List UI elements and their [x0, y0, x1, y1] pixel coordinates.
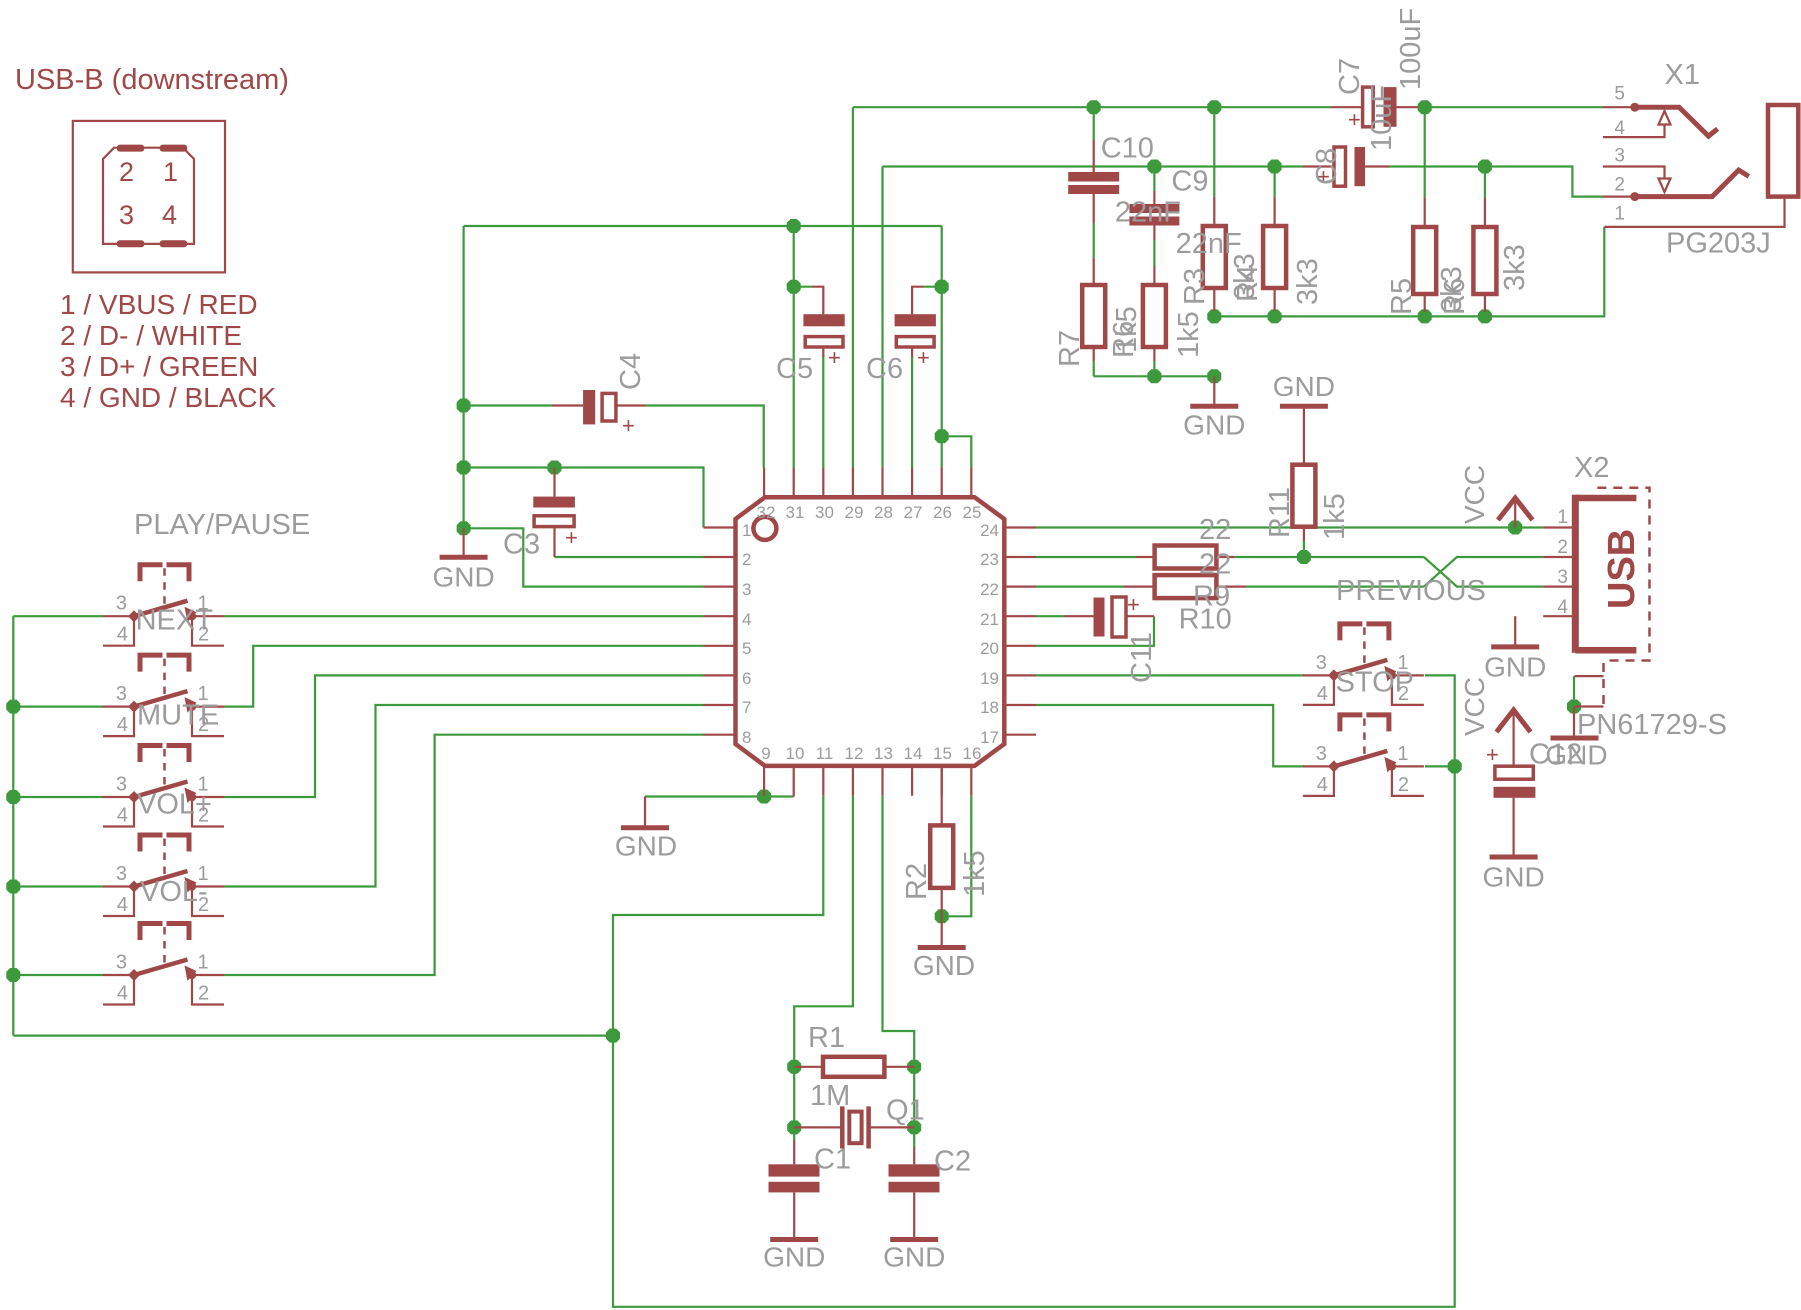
- wire C4 right to IC pin32: [646, 406, 764, 468]
- wire pin12 column to crystal left: [794, 796, 853, 1140]
- node bus y528: [457, 521, 471, 535]
- capacitor C8: [1303, 147, 1389, 189]
- wire C10 to R7 net: [1093, 223, 1095, 258]
- svg-text:25: 25: [963, 503, 982, 522]
- svg-text:2: 2: [198, 983, 209, 1005]
- svg-text:3: 3: [742, 580, 751, 599]
- svg-text:GND: GND: [763, 1242, 825, 1273]
- svg-text:22nF: 22nF: [1115, 197, 1181, 229]
- wire lower switch pin1: [1425, 765, 1455, 767]
- svg-text:4: 4: [117, 624, 128, 646]
- capacitor C5: [803, 287, 844, 370]
- svg-text:C8: C8: [1311, 148, 1343, 185]
- svg-text:3: 3: [1316, 743, 1327, 765]
- capacitor C3 10uF: [533, 468, 578, 558]
- node C4 left: [457, 399, 471, 413]
- svg-text:GND: GND: [615, 831, 677, 862]
- wire VOL- pin3: [13, 885, 103, 887]
- svg-text:29: 29: [845, 503, 864, 522]
- svg-text:1k5: 1k5: [1319, 493, 1351, 540]
- wire C4 left lead net: [464, 404, 552, 406]
- svg-text:VCC: VCC: [1459, 465, 1490, 524]
- svg-text:USB: USB: [1601, 529, 1643, 609]
- svg-text:1: 1: [1614, 204, 1625, 225]
- svg-text:4: 4: [1557, 597, 1568, 618]
- resistor R4 3k3: [1263, 197, 1286, 311]
- svg-text:3: 3: [116, 952, 127, 974]
- svg-text:4: 4: [117, 714, 128, 736]
- svg-text:19: 19: [980, 669, 999, 688]
- switch S4 (VOL-): [103, 835, 224, 916]
- svg-text:2: 2: [1398, 774, 1409, 796]
- svg-text:GND: GND: [1183, 410, 1245, 441]
- node C6 tap: [935, 280, 949, 294]
- svg-text:VOL-: VOL-: [140, 876, 208, 908]
- svg-text:7: 7: [742, 698, 751, 717]
- wire VOL+ pin3: [13, 796, 103, 798]
- svg-text:3: 3: [116, 774, 127, 796]
- svg-text:3: 3: [1557, 567, 1568, 588]
- capacitor C12: [1486, 711, 1535, 855]
- svg-text:3: 3: [116, 863, 127, 885]
- wire R6 bottom stub: [1153, 361, 1155, 376]
- svg-text:C1: C1: [814, 1144, 851, 1176]
- svg-text:3: 3: [1316, 652, 1327, 674]
- svg-text:X2: X2: [1574, 452, 1609, 484]
- IC pin1 marker circle: [753, 517, 776, 540]
- wire C3 bottom to IC pin2: [555, 556, 704, 558]
- wire R6 bottom stub: [1484, 312, 1486, 316]
- wire right return loop: [613, 766, 1455, 1306]
- node bus VOL+: [6, 790, 20, 804]
- capacitor C7 100uF: [1331, 87, 1418, 132]
- svg-text:4 / GND / BLACK: 4 / GND / BLACK: [60, 382, 277, 413]
- wire R6 column upper: [1484, 167, 1486, 199]
- wire C6 top tap: [924, 286, 942, 288]
- wire NEXT pin1 to IC pin4: [224, 615, 704, 617]
- svg-text:13: 13: [874, 744, 893, 763]
- wire fifth switch pin3: [13, 974, 103, 976]
- ground symbol G2 pins 9 10: [615, 797, 677, 862]
- svg-text:GND: GND: [1482, 862, 1544, 893]
- svg-text:+: +: [828, 345, 841, 370]
- wire pin28 column: [881, 167, 883, 468]
- svg-text:20: 20: [980, 639, 999, 658]
- wire C5 bottom to pin30: [822, 356, 824, 468]
- IC top pin stubs: [764, 468, 971, 498]
- IC left pin stubs: [704, 528, 734, 735]
- capacitor C1: [769, 1140, 820, 1237]
- svg-text:3k3: 3k3: [1436, 266, 1468, 313]
- svg-text:4: 4: [117, 983, 128, 1005]
- svg-text:2: 2: [119, 157, 134, 187]
- capacitor C4: [552, 390, 646, 438]
- wire IC pin21 row to C11: [1036, 615, 1065, 617]
- wire IC pins 9 10 ground row: [645, 795, 794, 797]
- resistor R10 22: [1124, 575, 1247, 598]
- svg-text:3k3: 3k3: [1499, 244, 1531, 291]
- node R3 bottom: [1207, 309, 1221, 323]
- node top rail / pin31: [787, 219, 801, 233]
- wire R7 R6 bottoms y=376.3: [1094, 375, 1215, 377]
- X2 pin stubs: [1543, 528, 1572, 617]
- svg-text:2: 2: [1557, 537, 1568, 558]
- node R5 bottom: [1418, 309, 1432, 323]
- node GND tap shunt: [1207, 369, 1221, 383]
- resistor R7 1k5: [1082, 258, 1105, 361]
- svg-text:28: 28: [874, 503, 893, 522]
- IC top pin numbers: [757, 503, 982, 522]
- svg-text:GND: GND: [883, 1242, 945, 1273]
- resistor R6 3k3: [1473, 198, 1496, 312]
- wire crossing up to X2 pin2: [1424, 557, 1543, 587]
- switch S5: [103, 924, 224, 1005]
- ground symbol G7 above R11: [1273, 371, 1335, 406]
- node bus VOL-: [6, 880, 20, 894]
- node bus SW5: [6, 968, 20, 982]
- svg-text:32: 32: [757, 503, 776, 522]
- resistor R6a 1k5: [1143, 266, 1166, 361]
- svg-text:3: 3: [119, 200, 134, 230]
- resistor R2 1k5: [930, 766, 953, 946]
- node pin25 branch: [935, 429, 949, 443]
- node R1 left: [787, 1060, 801, 1074]
- IC bottom pin numbers: [761, 744, 981, 763]
- resistor R11 1k5: [1292, 408, 1315, 541]
- wire R5 column upper: [1424, 107, 1426, 198]
- ground symbol G9 X2 shield: [1545, 707, 1607, 771]
- USB-B pad top-right: [160, 145, 188, 152]
- node C9 top: [1147, 160, 1161, 174]
- svg-text:3 / D+ / GREEN: 3 / D+ / GREEN: [60, 351, 258, 382]
- IC U1 body: [736, 497, 1005, 766]
- IC right pin numbers: [980, 521, 999, 747]
- wire top net y=107 right segment to X1 pin5: [1418, 106, 1603, 108]
- node C7 right: [1418, 100, 1432, 114]
- svg-text:C10: C10: [1101, 133, 1154, 165]
- X2 dashed shield outline: [1597, 488, 1649, 661]
- svg-text:+: +: [1348, 107, 1361, 132]
- wire MUTE pin3: [13, 705, 103, 707]
- svg-text:23: 23: [980, 550, 999, 569]
- switch S2 (MUTE): [103, 655, 224, 736]
- svg-text:2: 2: [1614, 175, 1625, 196]
- wire pin29 column to top rail: [852, 107, 854, 467]
- X1 pin 2 lead and lever: [1603, 170, 1749, 201]
- node R6 top: [1478, 160, 1492, 174]
- svg-text:PREVIOUS: PREVIOUS: [1336, 575, 1486, 607]
- ground symbol G10 C12: [1482, 857, 1544, 893]
- wire R4 column upper: [1273, 167, 1275, 198]
- capacitor C11: [1065, 592, 1155, 637]
- svg-text:C11: C11: [1126, 632, 1158, 683]
- wire VCC top rail y=226: [464, 225, 942, 227]
- svg-text:3: 3: [116, 683, 127, 705]
- svg-text:4: 4: [1614, 118, 1625, 139]
- svg-text:R3: R3: [1179, 268, 1211, 305]
- svg-text:C7: C7: [1334, 58, 1366, 95]
- node R4 top: [1268, 160, 1282, 174]
- wire IC pin22 row right of R10 to crossing: [1246, 585, 1424, 587]
- ground symbol G8 X2 pin4: [1484, 616, 1546, 682]
- X2 shield pin rungs: [1575, 676, 1604, 706]
- node C3 top: [548, 461, 562, 475]
- svg-text:3: 3: [116, 593, 127, 615]
- wire pin26 column: [941, 226, 943, 468]
- svg-text:4: 4: [162, 200, 177, 230]
- svg-text:PN61729-S: PN61729-S: [1577, 709, 1727, 741]
- svg-text:10uF: 10uF: [1366, 85, 1398, 151]
- capacitor C9 22nF: [1129, 191, 1179, 240]
- wire top net D+ y=107 left segment: [853, 106, 1331, 108]
- VCC arrow X2 pin1: [1498, 498, 1533, 528]
- svg-text:11: 11: [816, 744, 834, 763]
- svg-text:26: 26: [933, 503, 952, 522]
- wire C5 top tap: [794, 286, 812, 288]
- svg-text:4: 4: [742, 610, 751, 629]
- wire IC pin23 row right of R9 to crossing: [1234, 556, 1424, 558]
- svg-text:4: 4: [117, 894, 128, 916]
- wire R5 bottom stub: [1424, 312, 1426, 316]
- svg-text:1: 1: [163, 157, 178, 187]
- switch S7: [1303, 715, 1424, 796]
- svg-text:C9: C9: [1171, 166, 1208, 198]
- wire C9 column upper: [1153, 167, 1155, 192]
- svg-text:GND: GND: [1273, 371, 1335, 402]
- svg-text:R2: R2: [901, 863, 933, 900]
- svg-text:3k3: 3k3: [1229, 253, 1261, 300]
- svg-text:GND: GND: [1545, 740, 1607, 771]
- svg-text:1 / VBUS / RED: 1 / VBUS / RED: [60, 289, 258, 320]
- svg-text:4: 4: [1317, 683, 1328, 705]
- USB-B connector body outline: [103, 148, 194, 244]
- svg-text:31: 31: [786, 503, 805, 522]
- node bus MUTE: [6, 700, 20, 714]
- ground symbol G6 shunt: [1183, 376, 1245, 440]
- wire STOP pin1 riser: [1425, 675, 1455, 766]
- svg-text:30: 30: [815, 503, 834, 522]
- svg-text:VOL+: VOL+: [137, 789, 212, 821]
- wire branch to IC pin3: [464, 528, 704, 586]
- svg-text:USB-B (downstream): USB-B (downstream): [15, 64, 289, 96]
- USB-B pad top-left: [117, 145, 145, 152]
- wire R4 bottom stub: [1273, 311, 1275, 316]
- svg-text:24: 24: [980, 521, 999, 540]
- svg-text:C2: C2: [934, 1146, 971, 1178]
- svg-text:1: 1: [1397, 743, 1408, 765]
- svg-text:6: 6: [742, 669, 751, 688]
- node Q1 right: [907, 1120, 921, 1134]
- svg-text:1: 1: [198, 952, 209, 974]
- wire IC pin24 row to X2 pin1: [1036, 526, 1543, 528]
- node R2 bottom: [935, 909, 949, 923]
- svg-text:+: +: [622, 413, 635, 438]
- ground symbol G3 R2: [913, 948, 975, 982]
- svg-text:100uF: 100uF: [1395, 8, 1427, 90]
- svg-text:GND: GND: [913, 950, 975, 981]
- wire crossing down to X2 pin3: [1424, 557, 1543, 587]
- wire left decoupling bus x=464: [463, 226, 465, 528]
- svg-text:STOP: STOP: [1336, 667, 1414, 699]
- node R1 right: [907, 1060, 921, 1074]
- USB-B pad bottom-left: [117, 240, 145, 247]
- svg-text:17: 17: [980, 728, 999, 747]
- resistor R5 3k3: [1413, 198, 1436, 312]
- wire NEXT pin3: [13, 615, 103, 617]
- wire pin16 to R2 bottom: [942, 796, 972, 917]
- node R11 bottom: [1297, 550, 1311, 564]
- svg-text:X1: X1: [1665, 59, 1700, 91]
- wire second net y=166.5 left segment: [883, 165, 1304, 167]
- svg-text:22: 22: [980, 580, 999, 599]
- svg-text:2 / D- / WHITE: 2 / D- / WHITE: [60, 320, 242, 351]
- node C10 top: [1087, 100, 1101, 114]
- svg-text:R10: R10: [1179, 604, 1232, 636]
- node Q1 left: [787, 1120, 801, 1134]
- svg-text:10: 10: [786, 744, 805, 763]
- svg-text:R7: R7: [1054, 330, 1086, 367]
- ground symbol G4 C1: [763, 1240, 825, 1273]
- svg-text:21: 21: [980, 610, 999, 629]
- node R4 bottom: [1268, 309, 1282, 323]
- ground symbol G5 C2: [883, 1240, 945, 1273]
- X1 pin 3 lead with down arrow: [1603, 167, 1671, 193]
- svg-text:1: 1: [1557, 507, 1568, 528]
- node bus y467: [457, 461, 471, 475]
- wire IC pin22 row left of R10: [1036, 585, 1124, 587]
- node switch chain: [1448, 759, 1462, 773]
- svg-text:C5: C5: [776, 353, 813, 385]
- svg-text:+: +: [917, 345, 930, 370]
- wire X2 shield stub: [1573, 676, 1575, 706]
- resistor R1 1M: [794, 1057, 914, 1077]
- svg-text:GND: GND: [1484, 652, 1546, 683]
- wire VOL+ pin1 to IC pin6: [224, 675, 704, 797]
- node bottom rail: [606, 1029, 620, 1043]
- svg-text:R1: R1: [808, 1022, 845, 1054]
- svg-text:18: 18: [980, 698, 999, 717]
- svg-text:15: 15: [933, 744, 952, 763]
- svg-text:R5: R5: [1386, 278, 1418, 315]
- capacitor C2: [889, 1147, 940, 1237]
- wire bottom left rail: [13, 1034, 613, 1036]
- wire left switch bus: [12, 616, 14, 1035]
- USB-B connector drawing frame: [73, 121, 225, 273]
- node VCC X2 pin1: [1508, 521, 1522, 535]
- svg-text:4: 4: [117, 805, 128, 827]
- wire IC pin19 row to STOP: [1036, 674, 1304, 676]
- svg-text:8: 8: [742, 728, 751, 747]
- node C5 tap: [787, 280, 801, 294]
- crystal Q1: [794, 1106, 914, 1148]
- USB-B pad bottom-right: [160, 240, 188, 247]
- X1 pin 4 lead with up arrow: [1603, 111, 1671, 137]
- svg-text:C3: C3: [503, 529, 540, 561]
- switch S1 PLAY/PAUSE (NEXT): [103, 565, 224, 646]
- svg-text:1k5: 1k5: [1111, 306, 1143, 353]
- svg-text:9: 9: [761, 744, 770, 763]
- node R6a bottom: [1147, 369, 1161, 383]
- wire branch to pin25: [942, 436, 972, 467]
- IC bottom pin stubs: [764, 766, 971, 797]
- svg-text:3: 3: [1614, 146, 1625, 167]
- svg-text:PG203J: PG203J: [1666, 228, 1771, 260]
- svg-text:22: 22: [1199, 514, 1231, 546]
- wire pin31 column: [793, 226, 795, 468]
- svg-text:+: +: [565, 525, 578, 550]
- svg-text:Q1: Q1: [886, 1095, 925, 1127]
- svg-text:PLAY/PAUSE: PLAY/PAUSE: [134, 509, 310, 541]
- X1 pin 5 lead and lever: [1603, 103, 1718, 136]
- wire R3 bottom stub: [1213, 311, 1215, 316]
- switch S6 (STOP): [1303, 624, 1424, 705]
- resistor R3 3k3: [1203, 197, 1226, 311]
- wire C11 return to IC pin20: [1036, 616, 1154, 646]
- svg-text:C4: C4: [615, 353, 647, 390]
- resistor R9 22: [1136, 546, 1234, 569]
- svg-text:GND: GND: [432, 562, 494, 593]
- node X2 shield gnd: [1567, 700, 1581, 714]
- wire second net y=166.5 right segment to X1 pin2: [1389, 167, 1603, 197]
- capacitor C6: [895, 287, 936, 370]
- svg-text:1: 1: [742, 521, 751, 540]
- IC right pin stubs: [1006, 528, 1036, 735]
- svg-text:27: 27: [904, 503, 923, 522]
- wire VOL- pin1 to IC pin7: [224, 705, 704, 887]
- svg-text:22: 22: [1199, 549, 1231, 581]
- wire MUTE pin1 to IC pin5: [224, 646, 704, 707]
- node pin9 gnd: [757, 790, 771, 804]
- IC left pin numbers: [742, 521, 751, 747]
- wire C9 to R6 net: [1153, 240, 1155, 266]
- svg-text:3k3: 3k3: [1292, 258, 1324, 305]
- svg-text:1k5: 1k5: [1173, 311, 1205, 358]
- svg-text:22nF: 22nF: [1176, 228, 1242, 260]
- wire pin13 column to crystal right: [883, 796, 915, 1147]
- svg-text:14: 14: [904, 744, 923, 763]
- connector X1 PG203J body: [1768, 105, 1798, 197]
- svg-text:C6: C6: [866, 353, 903, 385]
- svg-text:16: 16: [963, 744, 982, 763]
- svg-text:4: 4: [1317, 774, 1328, 796]
- wire R3 column upper: [1213, 107, 1215, 197]
- ground symbol G1: [432, 528, 494, 592]
- wire C10 column upper: [1093, 107, 1095, 140]
- svg-text:+: +: [1127, 592, 1140, 617]
- svg-text:12: 12: [845, 744, 864, 763]
- svg-text:VCC: VCC: [1459, 677, 1490, 736]
- switch S3 (VOL+): [103, 746, 224, 827]
- VCC arrow C12: [1497, 710, 1531, 732]
- svg-text:MUTE: MUTE: [137, 700, 219, 732]
- connector X2 USB solid bracket: [1572, 495, 1579, 653]
- capacitor C10 22nF: [1068, 140, 1119, 223]
- wire IC pin23 row left of R9: [1036, 556, 1136, 558]
- svg-text:2: 2: [742, 550, 751, 569]
- svg-text:NEXT: NEXT: [136, 605, 214, 637]
- node R3 top: [1207, 100, 1221, 114]
- svg-text:5: 5: [742, 639, 751, 658]
- wire IC pin18 row to lower switch: [1036, 705, 1304, 766]
- wire R7 bottom stub: [1093, 361, 1095, 376]
- wire R11 bottom tap: [1303, 541, 1305, 557]
- svg-text:+: +: [1486, 742, 1499, 767]
- wire fifth switch pin1 to IC pin8: [224, 735, 704, 975]
- svg-text:1k5: 1k5: [959, 850, 991, 897]
- wire shunt rail y=316.4 to X1 pin1: [1214, 227, 1604, 317]
- node R6 bottom: [1478, 309, 1492, 323]
- wire branch y=467.5 to IC pin1: [464, 468, 704, 528]
